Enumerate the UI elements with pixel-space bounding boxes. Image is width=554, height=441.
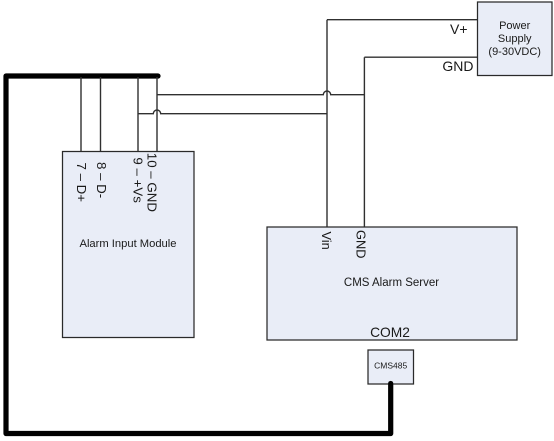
CMS alarm server box: [267, 227, 517, 340]
power supply label: [488, 20, 541, 58]
svg-text:8 – D-: 8 – D-: [94, 162, 109, 198]
svg-text:7 – D+: 7 – D+: [74, 163, 89, 203]
svg-text:CMS Alarm Server: CMS Alarm Server: [344, 277, 439, 289]
wire pin9 vertical: [137, 77, 139, 152]
svg-text:Supply: Supply: [498, 33, 532, 45]
svg-text:Alarm Input Module: Alarm Input Module: [79, 238, 176, 250]
CMS485 box: [368, 350, 414, 384]
svg-text:GND: GND: [354, 230, 369, 258]
wire pin10 vertical: [156, 77, 158, 152]
wire V+ horizontal: [327, 19, 478, 21]
alarm input module box: [63, 152, 195, 338]
power supply box: [478, 2, 553, 76]
wire pin10-GND with hop over Vin line: [157, 91, 364, 95]
svg-text:Power: Power: [499, 20, 531, 32]
wire GND vertical: [363, 57, 365, 227]
svg-text:COM2: COM2: [370, 325, 410, 340]
svg-text:GND: GND: [442, 58, 473, 74]
svg-text:Vin: Vin: [319, 232, 334, 250]
svg-text:V+: V+: [450, 21, 468, 37]
svg-text:10 – GND: 10 – GND: [145, 153, 160, 212]
svg-text:CMS485: CMS485: [374, 361, 407, 371]
wire pin8 vertical: [100, 77, 102, 152]
wire GND horizontal: [364, 56, 477, 58]
wire pin9-Vin with hop over pin10 line: [138, 110, 327, 114]
svg-text:9 – +Vs: 9 – +Vs: [130, 157, 145, 203]
svg-text:(9-30VDC): (9-30VDC): [488, 46, 541, 58]
wire pin7 vertical: [80, 77, 82, 152]
wire Vin vertical: [326, 20, 328, 227]
thick cable end cap at CMS485: [388, 381, 393, 386]
thick cable wire (RS-485 bus): [6, 76, 391, 434]
